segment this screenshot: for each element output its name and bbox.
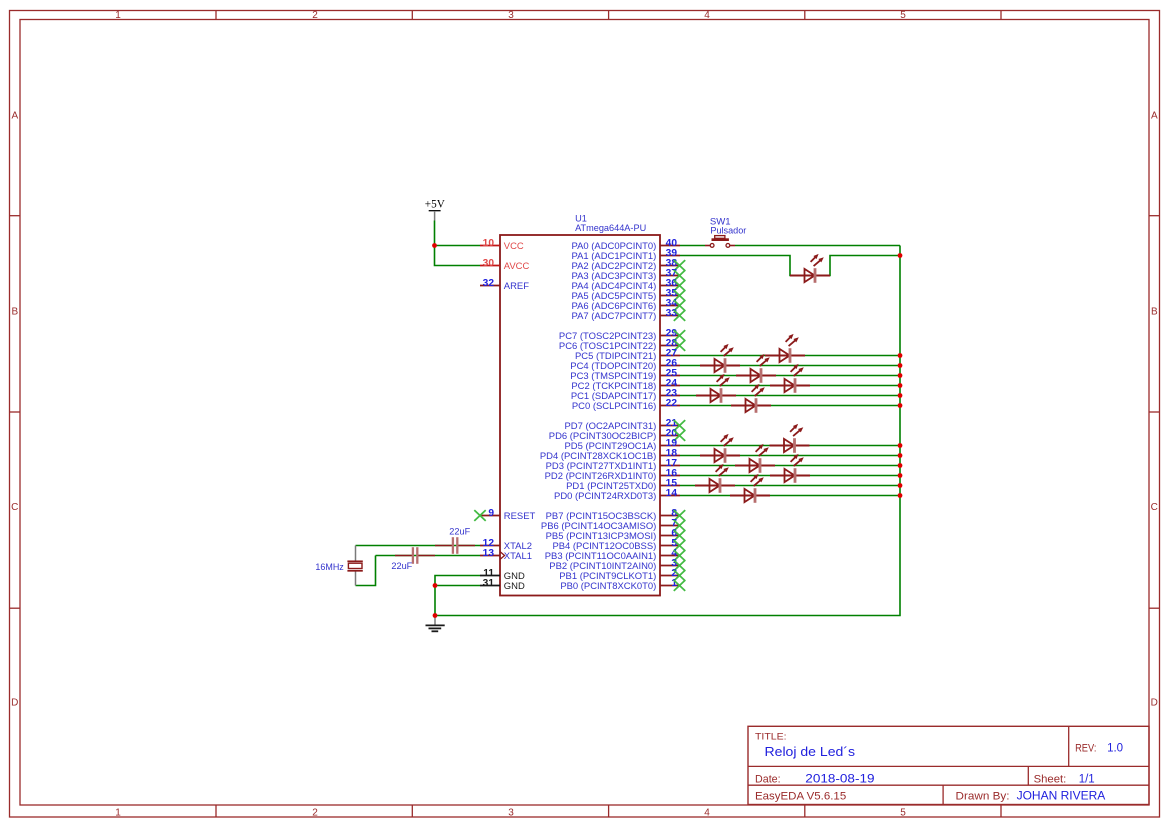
svg-text:Sheet:: Sheet:: [1034, 773, 1067, 785]
svg-text:GND: GND: [504, 581, 525, 592]
svg-text:D: D: [1151, 698, 1158, 709]
svg-text:14: 14: [666, 488, 678, 499]
svg-text:1: 1: [115, 10, 121, 21]
svg-text:EasyEDA V5.6.15: EasyEDA V5.6.15: [755, 791, 846, 803]
svg-text:Pulsador: Pulsador: [710, 226, 746, 237]
svg-text:1.0: 1.0: [1107, 742, 1123, 754]
svg-text:JOHAN RIVERA: JOHAN RIVERA: [1017, 789, 1106, 803]
svg-text:RESET: RESET: [504, 511, 536, 522]
svg-text:A: A: [11, 110, 18, 121]
svg-text:1/1: 1/1: [1079, 773, 1095, 785]
svg-text:TITLE:: TITLE:: [755, 731, 787, 742]
svg-text:AREF: AREF: [504, 281, 529, 292]
svg-text:1: 1: [115, 808, 121, 819]
svg-text:2: 2: [312, 808, 318, 819]
svg-text:4: 4: [704, 808, 710, 819]
svg-text:31: 31: [483, 578, 495, 589]
svg-text:AVCC: AVCC: [504, 261, 530, 272]
svg-text:22: 22: [666, 398, 678, 409]
svg-text:B: B: [11, 307, 18, 318]
svg-text:3: 3: [508, 10, 514, 21]
svg-text:33: 33: [666, 308, 678, 319]
svg-text:C: C: [11, 502, 18, 513]
svg-text:ATmega644A-PU: ATmega644A-PU: [575, 223, 646, 233]
svg-text:PC0 (SCLPCINT16): PC0 (SCLPCINT16): [572, 401, 656, 412]
svg-text:30: 30: [483, 258, 495, 269]
svg-text:32: 32: [483, 278, 495, 289]
svg-text:4: 4: [704, 10, 710, 21]
svg-text:3: 3: [508, 808, 514, 819]
svg-text:2: 2: [312, 10, 318, 21]
svg-text:C: C: [1151, 502, 1158, 513]
svg-text:A: A: [1151, 110, 1158, 121]
svg-text:5: 5: [900, 10, 906, 21]
svg-text:D: D: [11, 698, 18, 709]
svg-text:9: 9: [488, 508, 494, 519]
svg-text:16MHz: 16MHz: [315, 562, 344, 573]
svg-text:10: 10: [483, 238, 495, 249]
svg-text:5: 5: [900, 808, 906, 819]
svg-text:REV:: REV:: [1075, 742, 1096, 754]
svg-text:22uF: 22uF: [449, 526, 470, 537]
svg-text:13: 13: [483, 548, 495, 559]
svg-text:2018-08-19: 2018-08-19: [805, 771, 875, 785]
svg-text:Drawn By:: Drawn By:: [956, 791, 1010, 803]
svg-text:PB0 (PCINT8XCK0T0): PB0 (PCINT8XCK0T0): [560, 581, 656, 592]
svg-text:PA7 (ADC7PCINT7): PA7 (ADC7PCINT7): [572, 311, 657, 322]
svg-text:+5V: +5V: [425, 199, 445, 211]
svg-text:22uF: 22uF: [391, 561, 412, 572]
svg-text:PD0 (PCINT24RXD0T3): PD0 (PCINT24RXD0T3): [554, 491, 656, 502]
svg-text:XTAL1: XTAL1: [504, 551, 532, 562]
svg-text:VCC: VCC: [504, 241, 524, 252]
svg-text:B: B: [1151, 307, 1158, 318]
svg-text:Date:: Date:: [755, 773, 781, 785]
svg-text:Reloj de Led´s: Reloj de Led´s: [765, 744, 856, 759]
